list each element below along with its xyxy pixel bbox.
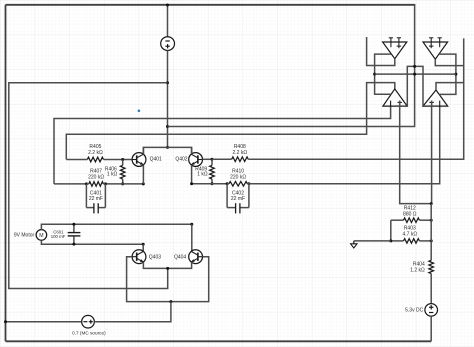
wire collector bus: [143, 147, 191, 154]
wire R409 top lead: [211, 159, 213, 165]
svg-text:100 mF: 100 mF: [51, 234, 66, 239]
wire Q401 collector: [142, 147, 144, 154]
wire left input column: [375, 54, 392, 94]
op-amp U2 top-right: [423, 38, 448, 59]
wire 0.7 source left: [6, 321, 82, 323]
svg-text:220 kΩ: 220 kΩ: [230, 175, 246, 181]
svg-text:0.7 (MC source): 0.7 (MC source): [72, 330, 106, 335]
wire Q402 emitter: [191, 165, 193, 184]
svg-text:2.2 kΩ: 2.2 kΩ: [233, 150, 248, 156]
wire drive left: [66, 83, 395, 160]
wire rail right a: [192, 183, 228, 185]
node emitter junction: [166, 267, 169, 270]
wire R chain mid: [430, 204, 432, 261]
capacitor C402: [227, 184, 249, 214]
wire R410 left lead: [227, 183, 229, 185]
label Q403: [149, 254, 161, 260]
node rail Q401 emitter: [142, 182, 145, 185]
wire U3 noninv lead: [400, 101, 432, 204]
wire feedback left: [54, 106, 391, 184]
wire R407 left lead: [86, 183, 88, 185]
node R409 bottom: [211, 182, 214, 185]
resistor R409: [210, 165, 215, 179]
wire Q403 collector: [142, 244, 144, 251]
node rail C401 right: [104, 182, 107, 185]
label Q404: [174, 254, 186, 260]
label R412: [403, 206, 417, 218]
node motor bottom junction: [142, 243, 145, 246]
wire R403 right lead: [419, 240, 431, 242]
node collector bus tap: [166, 146, 169, 149]
wire Q401 emitter: [142, 165, 144, 184]
label C401: [89, 191, 103, 203]
svg-text:5.3v DC: 5.3v DC: [405, 307, 423, 313]
wire Q403 emitter: [143, 262, 191, 268]
wire top border: [6, 4, 416, 6]
label R410: [230, 169, 246, 181]
node center bridge junction: [413, 65, 416, 68]
wire rail left a: [54, 183, 86, 185]
wire R406 top lead: [122, 160, 124, 166]
label 9V Motor: [14, 233, 35, 239]
op-amp U3 bottom-left: [383, 89, 407, 106]
label R406: [105, 167, 118, 178]
node center bus: [413, 73, 416, 76]
node R403 left: [389, 239, 392, 242]
label C402: [231, 191, 245, 203]
wire ground lead: [354, 240, 391, 242]
node center column tap: [166, 125, 169, 128]
wire V source bottom lead: [167, 51, 169, 148]
node border junction: [4, 320, 7, 323]
voltage source 0.7 MC: [82, 315, 95, 328]
marker blue dot: [138, 110, 141, 113]
node rail C402 left: [226, 182, 229, 185]
wire middle bus: [375, 73, 456, 75]
node R406 top: [121, 158, 124, 161]
wire bottom border: [6, 340, 432, 342]
resistor R404: [429, 260, 434, 273]
wire Q404 collector: [191, 224, 193, 251]
svg-text:220 kΩ: 220 kΩ: [88, 175, 104, 181]
wire U1 output: [367, 37, 395, 66]
node left loop tap: [166, 81, 169, 84]
wire right input column: [439, 54, 456, 94]
wire center bridge: [407, 66, 423, 106]
wire base line right: [212, 158, 232, 160]
capacitor C601: [68, 224, 81, 244]
wire base line to opamp: [248, 38, 464, 159]
wire R403 left lead: [391, 240, 404, 242]
label R407: [88, 169, 104, 181]
svg-text:1 kΩ: 1 kΩ: [197, 172, 208, 178]
label R405: [88, 144, 103, 156]
label C601: [51, 230, 66, 239]
voltage source V401: [161, 37, 175, 51]
wire motor bottom: [41, 240, 143, 244]
node base loop junction: [169, 300, 172, 303]
label R404: [410, 262, 425, 274]
label Q401: [150, 156, 162, 162]
node rail Q402 emitter: [190, 182, 193, 185]
wire rail left b: [105, 183, 143, 185]
wire V source top lead: [167, 5, 169, 37]
wire 0.7 source right: [94, 302, 171, 322]
wire R406 bottom lead: [122, 179, 124, 184]
wire R412 left lead: [391, 219, 404, 221]
wire R412 right lead: [419, 219, 431, 221]
ground: [351, 241, 357, 248]
node left column bus: [373, 73, 376, 76]
wire U4 inv lead: [431, 101, 433, 204]
resistor R405: [87, 157, 103, 162]
node rail C401 left: [85, 182, 88, 185]
svg-text:9V Motor: 9V Motor: [14, 233, 35, 239]
node top border junction: [166, 4, 169, 7]
resistor R407: [89, 182, 104, 187]
wire R405 left lead: [66, 159, 87, 161]
wire Q402 base lead: [202, 158, 212, 160]
node motor top junction: [190, 223, 193, 226]
wire R pair left vertical: [390, 220, 392, 241]
wire U4 output: [436, 83, 464, 90]
motor M601: [36, 230, 47, 241]
node R409 top: [211, 158, 214, 161]
svg-text:1.2 kΩ: 1.2 kΩ: [410, 268, 425, 274]
transistor Q404: [189, 250, 203, 264]
wire rail to opamp: [249, 106, 440, 184]
op-amp U1 top-left: [383, 38, 407, 59]
resistor R403: [404, 239, 420, 244]
wire R405 right lead: [104, 159, 133, 161]
resistor R408: [232, 157, 249, 162]
wire R404 bottom lead: [430, 274, 432, 304]
svg-text:Q404: Q404: [174, 254, 186, 260]
transistor Q402: [189, 153, 203, 167]
node R403 right: [430, 239, 433, 242]
label Q402: [175, 156, 187, 162]
voltage source V402 5.3v: [425, 304, 438, 317]
resistor R412: [404, 218, 420, 223]
label 5.3v DC: [405, 307, 423, 313]
svg-text:22 mF: 22 mF: [231, 196, 245, 202]
svg-text:4.7 kΩ: 4.7 kΩ: [403, 232, 418, 238]
wire R410 right lead: [247, 183, 249, 185]
wire U2 output: [435, 59, 463, 65]
wire center column: [168, 5, 415, 127]
svg-text:Q402: Q402: [175, 156, 187, 162]
wire R409 bottom lead: [211, 179, 213, 184]
node R406 bottom: [121, 182, 124, 185]
transistor Q401: [132, 153, 146, 167]
wire motor top: [41, 224, 191, 229]
node R412 right: [430, 219, 433, 222]
wire left loop: [9, 83, 168, 289]
svg-text:Q403: Q403: [149, 254, 161, 260]
svg-text:22 mF: 22 mF: [89, 196, 103, 202]
svg-text:1 kΩ: 1 kΩ: [107, 172, 118, 178]
node right column bus: [454, 73, 457, 76]
node rail C402 right: [247, 182, 250, 185]
wire Q402 collector: [191, 147, 193, 154]
label R403: [403, 226, 418, 238]
wire left border: [5, 5, 7, 342]
node C601 top: [72, 223, 75, 226]
label 0.7 MC source: [72, 330, 106, 335]
wire Q403 base loop: [127, 257, 209, 302]
label R408: [233, 144, 248, 156]
resistor R406: [120, 165, 125, 179]
svg-text:M: M: [39, 233, 43, 239]
op-amp U4 bottom-right: [423, 90, 448, 106]
svg-text:880 Ω: 880 Ω: [403, 212, 417, 218]
resistor R410: [229, 182, 248, 187]
wire 5.3v to bottom border: [430, 316, 432, 341]
label R409: [195, 167, 208, 178]
node C601 bottom: [72, 243, 75, 246]
wire R407 right lead: [103, 183, 105, 185]
svg-text:Q401: Q401: [150, 156, 162, 162]
node R chain top: [430, 202, 433, 205]
transistor Q403: [132, 250, 146, 264]
capacitor C401: [86, 184, 105, 214]
svg-text:2.2 kΩ: 2.2 kΩ: [88, 150, 103, 156]
